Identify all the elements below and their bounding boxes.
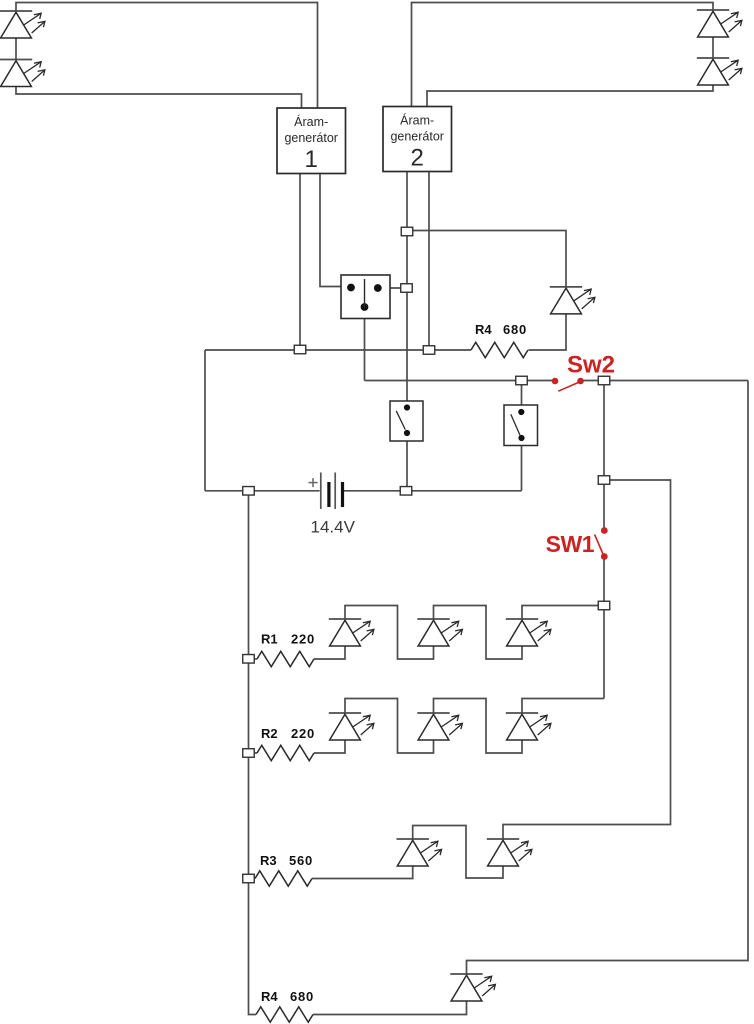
battery BT1 plate 3 long [334, 473, 336, 510]
LED row1 D4 [329, 618, 361, 620]
svg-text:R2: R2 [261, 726, 278, 741]
LED D1 top-left chain upper [0, 10, 32, 12]
svg-text:220: 220 [291, 726, 315, 741]
wire relay K1 right pin to node B rail [377, 287, 407, 289]
wire right LED chain bottom to generator 2 top [427, 85, 713, 107]
wire node G to right middle drop and LED row 3 output [503, 480, 671, 839]
wire row 2 LED1 to LED2 [345, 699, 434, 754]
wire relay K1 bottom pin down to SW2 line [364, 307, 366, 381]
svg-text:R3: R3 [260, 853, 277, 868]
svg-text:Sw2: Sw2 [567, 352, 615, 379]
node R1 junction [243, 655, 255, 664]
wire left rail down to resistor R4 [249, 491, 257, 1015]
svg-text:Áram-: Áram- [294, 114, 328, 129]
node left rail junction [243, 487, 255, 496]
LED D3 indicator [550, 286, 582, 288]
LED row1 D5 [417, 618, 449, 620]
resistor R3 zigzag [255, 871, 312, 886]
LED D10 top-right chain lower [697, 57, 729, 59]
switch K1 arm [396, 411, 405, 430]
wire junction between right chain LEDs [712, 37, 714, 59]
wire SW2 line right segment [584, 380, 749, 382]
wire node R1 to resistor R1 [249, 658, 258, 660]
wire left outer drop [204, 350, 206, 491]
node F junction [598, 376, 610, 385]
wire node B to LED D3 cathode [407, 231, 566, 287]
battery BT1 plate 1 long [320, 473, 322, 510]
wire resistor R3 to LED anode row 3 [312, 866, 413, 879]
switch K2 arm [511, 414, 520, 435]
resistor R2 zigzag [257, 745, 314, 760]
wire resistor R4 to LED D3 anode [529, 314, 567, 350]
svg-text:R4: R4 [475, 322, 492, 337]
resistor R4 top zigzag [471, 342, 528, 357]
relay K1 armature [364, 279, 366, 307]
svg-text:560: 560 [289, 853, 313, 868]
node R2 junction [243, 749, 255, 758]
svg-text:generátor: generátor [284, 131, 338, 145]
LED row4 D14 [450, 973, 482, 975]
svg-text:680: 680 [290, 989, 314, 1004]
resistor R1 zigzag [257, 651, 314, 666]
relay K1 bottom pin [361, 303, 369, 311]
wire node R3 to resistor R3 [249, 878, 256, 880]
switch K1 box [390, 401, 423, 441]
svg-text:680: 680 [503, 322, 527, 337]
wire battery positive lead [205, 490, 320, 492]
wire row 2 LED2 to LED3 [434, 699, 523, 754]
resistor R4 bottom zigzag [256, 1007, 313, 1022]
LED row2 D8 [417, 712, 449, 714]
switch SW1 bottom contact [601, 553, 608, 560]
LED row2 D7 [329, 712, 361, 714]
wire resistor R4 to LED anode row 4 [313, 1001, 467, 1015]
battery BT1 plate 4 short [341, 482, 344, 507]
wire right LED chain top to generator 2 top [412, 3, 714, 107]
wire row 3 LED1 to LED2 [413, 826, 503, 879]
wire switch K1 bottom to battery line [406, 433, 408, 491]
relay K1 box [341, 275, 390, 319]
node relay output junction [401, 284, 413, 293]
node C junction [423, 346, 435, 355]
switch K2 top contact [518, 409, 524, 415]
node R3 junction [243, 874, 255, 883]
LED D2 top-left chain lower [0, 59, 32, 61]
wire generator 1 bottom-left to node A [299, 174, 301, 350]
wire generator 1 bottom-right to relay K1 coil [320, 174, 352, 287]
switch SW1 arm [595, 534, 604, 555]
svg-text:14.4V: 14.4V [311, 518, 356, 537]
wire generator 2 bottom-left rail to switch K1 contact [406, 171, 408, 408]
wire right outer drop to LED row 4 anode [467, 381, 749, 975]
relay K1 left pin [347, 284, 355, 292]
svg-text:generátor: generátor [390, 129, 444, 143]
svg-text:Áram-: Áram- [400, 112, 434, 127]
battery BT1 plate 2 short [327, 482, 330, 507]
wire row 1 LED2 to LED3 [434, 606, 523, 660]
wire resistor R2 to LED anode row 2 [314, 740, 345, 753]
wire SW2 line left segment [365, 380, 553, 382]
svg-text:SW1: SW1 [546, 531, 595, 557]
node B junction [401, 227, 413, 236]
svg-text:R1: R1 [261, 631, 278, 646]
switch K2 box [504, 405, 538, 446]
wire main horizontal net at y350 [205, 349, 471, 351]
battery BT1 plus sign [309, 482, 318, 484]
svg-text:1: 1 [305, 146, 318, 173]
wire switch K2 bottom to battery line [521, 438, 523, 491]
LED row3 D13 [487, 838, 519, 840]
LED row3 D12 [397, 838, 429, 840]
wire battery negative lead to switches [344, 490, 522, 492]
wire row 1 LED1 to LED2 [345, 606, 434, 660]
wire row 2 LED3 output to rail corner [522, 699, 604, 714]
switch K1 bottom contact [404, 430, 410, 436]
svg-text:R4: R4 [261, 989, 278, 1004]
svg-text:220: 220 [291, 631, 315, 646]
wire generator 2 bottom-right to node C [428, 171, 430, 350]
node G junction [598, 476, 610, 485]
LED row1 D6 [506, 618, 538, 620]
wire left LED chain bottom to generator 1 top [16, 87, 302, 109]
wire LED row 1 output to node H [522, 606, 604, 620]
wire junction between left chain LEDs [15, 39, 17, 61]
generator box 1 [277, 108, 346, 174]
node battery junction [400, 487, 412, 496]
switch Sw2 arm [558, 383, 578, 392]
switch K2 bottom contact [518, 435, 524, 441]
switch Sw2 right contact [577, 378, 584, 385]
generator box 2 [383, 107, 452, 172]
switch K1 top contact [404, 404, 410, 410]
wire rail x604 lower segment from SW1 [603, 557, 605, 699]
wire left LED chain top to generator 1 top [16, 3, 318, 109]
LED D9 top-right chain upper [697, 9, 729, 11]
node H junction [598, 601, 610, 610]
wire resistor R1 to LED anode row 1 [314, 646, 345, 659]
node A junction [294, 345, 306, 354]
switch Sw2 left contact [552, 378, 559, 385]
wire node R2 to resistor R2 [249, 752, 258, 754]
relay K1 right pin [374, 284, 382, 292]
svg-text:2: 2 [411, 144, 424, 171]
switch SW1 top contact [601, 527, 608, 534]
LED row2 D11 [506, 712, 538, 714]
wire rail x604 upper segment to SW1 [603, 381, 605, 531]
wire node E to switch K2 top [521, 381, 523, 413]
node E junction [516, 376, 528, 385]
